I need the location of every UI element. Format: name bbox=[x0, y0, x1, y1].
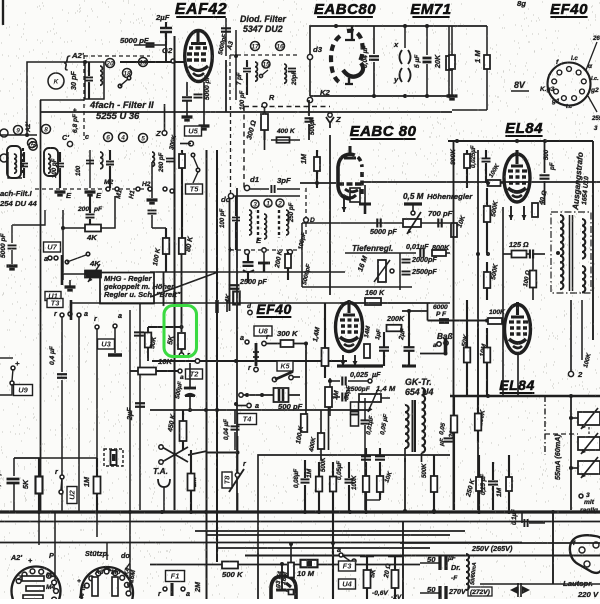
boxed label U5 bbox=[185, 126, 202, 136]
svg-text:300 K: 300 K bbox=[277, 329, 299, 338]
node 5 bbox=[139, 134, 148, 143]
svg-text:A3: A3 bbox=[94, 569, 104, 576]
svg-text:9: 9 bbox=[16, 128, 20, 135]
capacitor 500pF boxed bbox=[274, 388, 289, 402]
wire box bottom bbox=[245, 555, 600, 557]
svg-text:0,05µF: 0,05µF bbox=[336, 461, 343, 480]
output transformer secondary bbox=[582, 219, 585, 259]
cathode bus EF40 bbox=[337, 364, 383, 367]
svg-text:1: 1 bbox=[266, 201, 270, 208]
wire main bus y396 bbox=[450, 395, 600, 398]
svg-text:U2: U2 bbox=[68, 489, 77, 499]
svg-text:Stützp.: Stützp. bbox=[85, 549, 109, 558]
terminal 19 bbox=[139, 58, 148, 67]
wire a terminal bbox=[77, 313, 81, 317]
dashed filter box border bbox=[83, 55, 85, 140]
svg-text:19: 19 bbox=[139, 60, 147, 67]
svg-text:5000 pF: 5000 pF bbox=[120, 36, 149, 45]
bus y535 bbox=[206, 534, 450, 536]
terminal 18 bbox=[123, 69, 132, 78]
svg-text:1M: 1M bbox=[496, 487, 503, 497]
wire top right power bbox=[455, 454, 530, 456]
svg-text:U7: U7 bbox=[47, 243, 57, 252]
potentiometer right 1 bbox=[578, 412, 600, 425]
svg-text:400 K: 400 K bbox=[276, 128, 296, 135]
switch in filter bbox=[118, 84, 122, 88]
wire thick down bbox=[61, 255, 64, 285]
wire EABC80 left vertical bbox=[329, 135, 331, 295]
resistor 4K pot bbox=[85, 271, 101, 278]
resistor 400K mid bbox=[318, 433, 325, 449]
svg-text:g1: g1 bbox=[551, 98, 560, 105]
bus y528 bbox=[195, 530, 465, 532]
vertical buses right bbox=[477, 150, 479, 510]
boxed label F1 bbox=[166, 571, 185, 582]
wire y303 long bbox=[71, 302, 450, 304]
transformer GK coils bbox=[405, 405, 409, 448]
svg-text:3pF: 3pF bbox=[277, 176, 291, 185]
svg-text:654 U4: 654 U4 bbox=[405, 387, 433, 397]
svg-text:+: + bbox=[15, 359, 20, 368]
arrows below EL84 bbox=[510, 206, 512, 220]
svg-text:U3: U3 bbox=[101, 340, 111, 349]
svg-text:a: a bbox=[186, 589, 190, 598]
svg-text:6,8 pF +: 6,8 pF + bbox=[72, 108, 79, 133]
ground EAF42 cathode bbox=[182, 115, 193, 118]
resistor left leg bbox=[451, 26, 453, 55]
wire A2 to filter bbox=[27, 62, 85, 75]
coil diode filter 2 bbox=[284, 64, 286, 83]
svg-text:d1: d1 bbox=[250, 175, 259, 184]
wire mid long bbox=[300, 182, 336, 184]
coil top center bbox=[152, 152, 154, 166]
svg-text:700 pF: 700 pF bbox=[428, 209, 453, 218]
tube EABC80 top dashed bbox=[331, 26, 363, 84]
ground center-left bbox=[151, 162, 153, 198]
svg-text:254 DU 44: 254 DU 44 bbox=[0, 199, 37, 208]
wire lower-left feed bbox=[40, 99, 84, 101]
wire tone row y223 bbox=[302, 222, 450, 224]
wire 1M down to bottom bbox=[452, 109, 487, 111]
svg-text:270V: 270V bbox=[448, 587, 467, 596]
svg-text:0,08µF: 0,08µF bbox=[293, 469, 300, 488]
svg-text:0,04 µF: 0,04 µF bbox=[223, 419, 230, 440]
boxed label T2 bbox=[186, 369, 203, 379]
variable cap 2500pF bbox=[243, 262, 254, 266]
svg-text:Regler u. Sch. "Breit": Regler u. Sch. "Breit" bbox=[104, 290, 181, 299]
svg-text:5255 U 36: 5255 U 36 bbox=[96, 110, 140, 121]
green highlight box bbox=[164, 306, 197, 357]
boxed label U1 bbox=[45, 292, 61, 301]
IF can box left filter bbox=[7, 146, 21, 178]
svg-text:mit: mit bbox=[584, 499, 595, 506]
svg-text:M2: M2 bbox=[46, 572, 55, 579]
wire TA to T8 bbox=[207, 452, 238, 454]
svg-text:K2: K2 bbox=[320, 88, 331, 97]
wire 500pF row bbox=[239, 393, 243, 397]
svg-text:125 Ω: 125 Ω bbox=[509, 240, 529, 249]
boxed label U2 rotated bbox=[67, 487, 77, 504]
wire top 200K bbox=[340, 302, 430, 304]
svg-text:T.A.: T.A. bbox=[153, 467, 168, 476]
svg-text:E: E bbox=[81, 585, 86, 592]
wire x163 into green box bbox=[163, 272, 165, 306]
svg-text:1M: 1M bbox=[306, 468, 313, 478]
bus y542 bbox=[0, 542, 522, 544]
wire long y182 right bbox=[362, 181, 600, 183]
svg-text:220 V: 220 V bbox=[577, 590, 599, 599]
terminal 17 bbox=[251, 42, 260, 51]
speaker blob bbox=[570, 535, 600, 573]
svg-text:5347 DU2: 5347 DU2 bbox=[243, 24, 283, 34]
svg-text:0,25 µF: 0,25 µF bbox=[480, 474, 487, 495]
wire 5K feed bbox=[148, 326, 182, 328]
svg-text:Mo: Mo bbox=[111, 569, 121, 576]
wire right to anode bbox=[545, 182, 547, 205]
switch K5 bbox=[272, 377, 276, 381]
output transformer core bbox=[569, 215, 571, 291]
svg-text:-0,6V: -0,6V bbox=[372, 590, 388, 597]
svg-text:K5: K5 bbox=[281, 364, 290, 371]
coil 100pF section bbox=[48, 154, 50, 173]
T.A. switch bbox=[162, 447, 188, 462]
svg-text:200: 200 bbox=[77, 206, 89, 213]
output transformer primary coil bbox=[560, 215, 563, 263]
ground ratio bbox=[263, 252, 265, 262]
dashed box lower filter bbox=[244, 106, 330, 108]
junction dots EM71 box bbox=[372, 94, 376, 98]
svg-text:E: E bbox=[96, 191, 102, 200]
svg-text:17: 17 bbox=[251, 44, 259, 51]
boxed label F3 bbox=[339, 561, 356, 571]
output transformer dash-dot box bbox=[551, 212, 591, 293]
wire EL84 cathode down bbox=[517, 354, 519, 396]
wire to 4K bbox=[62, 210, 64, 280]
svg-text:µF: µF bbox=[371, 370, 381, 379]
svg-text:do: do bbox=[121, 551, 130, 560]
terminal Z left bbox=[162, 131, 167, 136]
svg-text:2µF: 2µF bbox=[125, 407, 134, 421]
svg-text:E: E bbox=[256, 236, 262, 245]
svg-text:Diod. Filter: Diod. Filter bbox=[240, 14, 287, 24]
svg-text:15: 15 bbox=[262, 62, 270, 69]
circle K bbox=[48, 73, 64, 89]
potentiometer 0.5M bbox=[404, 202, 422, 205]
boxed label K5 bbox=[277, 361, 293, 371]
vertical bus lines center bbox=[173, 36, 175, 510]
svg-text:Z: Z bbox=[335, 115, 341, 124]
junction dots y410 bbox=[215, 408, 219, 412]
headphone jack bbox=[158, 479, 170, 487]
wire box bottom bbox=[310, 95, 450, 97]
svg-text:0,4 µF: 0,4 µF bbox=[49, 345, 56, 365]
resistor 500k bbox=[222, 562, 238, 569]
diagonal wire bottom-left bbox=[150, 272, 218, 297]
svg-text:a: a bbox=[180, 374, 184, 381]
svg-text:i.c: i.c bbox=[566, 104, 572, 110]
dashed ratio filter box bbox=[230, 106, 232, 195]
wire main rail y112 bbox=[40, 111, 452, 113]
svg-text:i.c: i.c bbox=[571, 55, 578, 62]
boxed label U9 bbox=[14, 385, 33, 396]
svg-text:260 pF: 260 pF bbox=[158, 152, 165, 173]
svg-text:7 pF: 7 pF bbox=[236, 72, 243, 85]
ground E 2 bbox=[85, 190, 96, 193]
svg-text:H1: H1 bbox=[128, 190, 136, 200]
wire bottom right verticals bbox=[552, 512, 554, 584]
wire do vertical bbox=[229, 197, 231, 311]
terminal 16 bbox=[276, 42, 285, 51]
svg-text:0,025: 0,025 bbox=[350, 370, 369, 379]
power box 2 left edge bbox=[402, 522, 404, 600]
terminal 1 bbox=[264, 199, 272, 207]
svg-text:2500 pF: 2500 pF bbox=[239, 277, 267, 286]
capacitor 5000pF tone bbox=[377, 219, 380, 228]
svg-text:4: 4 bbox=[120, 135, 125, 142]
switch 4K pot bbox=[65, 260, 69, 264]
terminal 15 bbox=[262, 60, 270, 68]
junction dots right bus bbox=[477, 510, 481, 514]
svg-text:U4: U4 bbox=[342, 580, 352, 589]
svg-text:pF: pF bbox=[93, 206, 103, 213]
switch U9 bbox=[0, 357, 13, 359]
transformer marks bbox=[510, 586, 530, 594]
svg-text:T4: T4 bbox=[243, 415, 253, 424]
wire left vertical bus bbox=[40, 100, 42, 512]
svg-text:T8: T8 bbox=[223, 475, 232, 485]
potentiometer hoehen bbox=[403, 219, 421, 227]
svg-text:5000 pF: 5000 pF bbox=[370, 227, 397, 236]
ground bar U3 bbox=[108, 353, 122, 357]
svg-text:Tiefenregl.: Tiefenregl. bbox=[352, 244, 393, 253]
svg-text:100: 100 bbox=[75, 165, 82, 176]
terminal 20 bbox=[106, 59, 115, 68]
junction dots power bbox=[403, 509, 407, 513]
dashed box fuse bbox=[104, 449, 123, 466]
capacitor 2500pF bars bbox=[229, 285, 240, 288]
svg-text:EABC 80: EABC 80 bbox=[350, 123, 417, 140]
tube EL84 top bbox=[504, 150, 530, 202]
node 4 bbox=[119, 133, 128, 142]
ground E 1 bbox=[55, 190, 66, 193]
wire filter top bbox=[85, 62, 104, 99]
node 2 terminal bbox=[568, 371, 573, 376]
tube socket EF40 viewed from below bbox=[548, 63, 591, 106]
vertical buses lower right bbox=[453, 141, 455, 510]
bus y521 bbox=[0, 521, 600, 523]
svg-text:EM71: EM71 bbox=[410, 1, 451, 18]
resistor 4K bbox=[85, 225, 101, 232]
node A2 junction bbox=[83, 60, 87, 64]
tube EF40 mid bbox=[336, 300, 363, 352]
svg-text:5: 5 bbox=[141, 136, 145, 143]
resistor 50K bbox=[145, 333, 152, 348]
tube EABC80 mid bbox=[338, 146, 362, 199]
ratio detector coil mid bbox=[264, 214, 267, 239]
ratio core dashes bbox=[257, 210, 259, 242]
svg-text:100K: 100K bbox=[351, 475, 358, 490]
svg-text:20pF: 20pF bbox=[291, 70, 298, 86]
svg-text:4K: 4K bbox=[86, 233, 98, 242]
svg-text:250V (265V): 250V (265V) bbox=[471, 544, 513, 553]
wire EL84 top rail y141 bbox=[448, 140, 593, 142]
svg-text:500 pF: 500 pF bbox=[278, 402, 303, 411]
svg-text:500pF: 500pF bbox=[309, 117, 316, 135]
boxed label T8 rotated bbox=[222, 472, 232, 488]
svg-text:500K: 500K bbox=[421, 463, 428, 478]
coil filter II input bbox=[100, 66, 102, 85]
wire grid feed bbox=[120, 45, 166, 62]
svg-text:T5: T5 bbox=[190, 185, 200, 194]
small box below tube bbox=[350, 188, 360, 202]
bottom tube partial bbox=[271, 576, 296, 599]
svg-text:1 M: 1 M bbox=[473, 50, 482, 63]
svg-text:5000 pF: 5000 pF bbox=[204, 74, 211, 100]
capacitor pair top bbox=[361, 456, 371, 459]
wire EAF42 cathode down bbox=[186, 82, 188, 96]
boxed label U4 bbox=[339, 579, 356, 589]
svg-text:R: R bbox=[269, 93, 275, 102]
dashed line filter I bbox=[35, 188, 150, 190]
vertical bus 227 bbox=[226, 300, 228, 312]
svg-text:T3: T3 bbox=[51, 299, 61, 308]
boxed label T4 bbox=[238, 414, 257, 425]
svg-text:µF: µF bbox=[447, 555, 457, 562]
svg-text:a: a bbox=[255, 401, 259, 410]
wire to diode filter bbox=[225, 18, 227, 56]
wire bottom tone bbox=[302, 286, 412, 288]
coil diode filter 1 bbox=[255, 62, 257, 81]
svg-text:16: 16 bbox=[276, 44, 284, 51]
ground pair center bbox=[65, 285, 76, 288]
arrows below EF40 bbox=[342, 355, 344, 366]
svg-text:8V: 8V bbox=[514, 80, 526, 90]
boxed label U8 bbox=[254, 326, 272, 336]
svg-text:7: 7 bbox=[31, 144, 35, 151]
wire right verticals bbox=[129, 310, 131, 512]
svg-text:P F: P F bbox=[436, 311, 447, 318]
boxed label T5 bbox=[186, 184, 203, 194]
terminal a 405 bbox=[247, 403, 251, 407]
wire top box EABC80-EM71 bbox=[310, 26, 487, 96]
wire anode down bbox=[203, 82, 205, 125]
svg-text:R: R bbox=[79, 593, 84, 599]
terminal Z antenna bbox=[326, 117, 334, 128]
box MHG-Regler bbox=[100, 273, 154, 304]
switch T5 area bbox=[191, 153, 195, 157]
socket B bottom mid bbox=[81, 567, 133, 604]
svg-text:pF: pF bbox=[549, 162, 556, 171]
bottom connector left bbox=[163, 587, 167, 591]
filter I coil left bbox=[8, 152, 22, 178]
wire 330 vertical bbox=[329, 378, 331, 416]
wire 500k row bbox=[150, 564, 420, 566]
svg-text:A2': A2' bbox=[10, 553, 22, 562]
bus y548 bbox=[217, 547, 430, 549]
svg-text:raglig: raglig bbox=[580, 507, 598, 514]
ratio detector coil right bbox=[286, 210, 289, 235]
svg-text:5 µF: 5 µF bbox=[414, 54, 421, 68]
svg-text:2µF: 2µF bbox=[155, 13, 170, 22]
resistor 16M bbox=[288, 563, 294, 578]
wire left loop down bbox=[301, 223, 303, 287]
svg-text:100 pF: 100 pF bbox=[219, 208, 226, 228]
terminal 2 bbox=[276, 199, 284, 207]
svg-text:500 K: 500 K bbox=[222, 570, 244, 579]
boxed label T3 bbox=[47, 299, 63, 308]
power box outline bbox=[258, 455, 450, 553]
svg-text:2000pF: 2000pF bbox=[411, 255, 437, 264]
svg-text:i.c.: i.c. bbox=[591, 76, 599, 82]
capacitor 0.01uF gk bbox=[361, 420, 370, 423]
resistor 10K bbox=[138, 368, 156, 375]
potentiometer right 2 bbox=[578, 437, 600, 450]
ground left leg bbox=[447, 94, 458, 97]
main bus y512 bbox=[0, 510, 600, 513]
wire 10K row bbox=[152, 360, 347, 362]
svg-text:6: 6 bbox=[106, 135, 110, 142]
wire 55mA vertical bbox=[570, 396, 572, 510]
junction dots right bbox=[476, 252, 480, 256]
svg-text:2500pF: 2500pF bbox=[411, 267, 437, 276]
resistor top center bbox=[179, 154, 185, 168]
dashed box diode filter bbox=[230, 54, 300, 56]
svg-text:8: 8 bbox=[44, 127, 48, 134]
wire y272 bbox=[150, 271, 345, 273]
potentiometer right 3 bbox=[578, 461, 600, 474]
arrow through pot bbox=[88, 264, 100, 282]
resistor 100K bottom-left bbox=[301, 414, 308, 432]
socket leader lines bbox=[586, 42, 597, 70]
svg-text:EL84: EL84 bbox=[499, 377, 534, 393]
wire transformer feed bbox=[536, 257, 560, 259]
vertical bus 236 bbox=[236, 188, 238, 512]
svg-text:+: + bbox=[228, 245, 233, 254]
tube EL84 lower bbox=[505, 302, 531, 354]
node 6 bbox=[104, 133, 113, 142]
term junction top filter bbox=[67, 141, 72, 146]
svg-text:D: D bbox=[310, 217, 315, 224]
svg-text:T2: T2 bbox=[190, 370, 200, 379]
svg-text:0,01µF: 0,01µF bbox=[406, 242, 429, 251]
wire 5000pF down to rail bbox=[225, 60, 227, 112]
svg-text:E: E bbox=[66, 191, 72, 200]
arrow EABC80 cathode bbox=[343, 196, 345, 212]
svg-text:A2': A2' bbox=[71, 51, 85, 60]
resistor 10M bottom bbox=[301, 560, 318, 568]
dashed link pots bbox=[588, 427, 590, 437]
svg-text:EF40: EF40 bbox=[550, 1, 588, 18]
junction dots bus bbox=[37, 510, 41, 514]
svg-text:200K: 200K bbox=[386, 314, 405, 323]
svg-text:GK-Tr.: GK-Tr. bbox=[405, 377, 432, 387]
node 7 bbox=[28, 139, 37, 148]
wire R down bbox=[264, 107, 266, 150]
svg-text:a: a bbox=[118, 311, 122, 320]
svg-text:2M: 2M bbox=[193, 581, 202, 593]
terminal 3 bbox=[251, 200, 259, 208]
svg-text:y: y bbox=[393, 75, 399, 84]
svg-text:8g: 8g bbox=[517, 0, 526, 8]
wire bottom bus left bbox=[0, 134, 37, 136]
cap + ground right of tube bbox=[364, 185, 366, 203]
svg-text:M4: M4 bbox=[46, 584, 55, 591]
node 8 bbox=[42, 125, 51, 134]
capacitor small y333 bbox=[134, 332, 144, 335]
tube EAF42 bbox=[185, 31, 213, 82]
wire hv rail bbox=[300, 461, 450, 463]
svg-text:P: P bbox=[49, 551, 54, 560]
